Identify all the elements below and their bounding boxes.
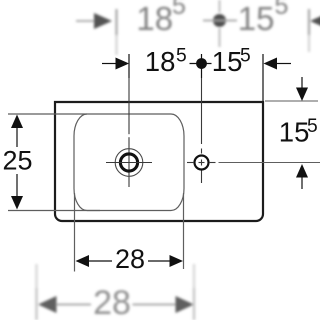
- ghost top right tick: [308, 9, 310, 35]
- svg-text:18: 18: [145, 46, 176, 77]
- extension lines below bowl (for 28): [74, 193, 76, 272]
- drain centre line vertical: [128, 78, 130, 134]
- top dimension line 18-5 left tail and arrowhead: [102, 63, 117, 65]
- dimension 25 vertical line: [16, 127, 18, 147]
- bowl (inner rounded rectangle): [74, 114, 184, 211]
- ghost top left extension stub: [115, 35, 117, 55]
- ghost bottom right arrowhead: [133, 304, 177, 306]
- svg-text:15: 15: [212, 46, 243, 77]
- ghost top dim line tail: [76, 20, 97, 22]
- tap crosshair horizontal + right extension (for 15-5): [187, 162, 194, 164]
- drain inner circle: [120, 154, 137, 171]
- right dim down arrow: [301, 77, 303, 89]
- svg-text:15: 15: [279, 117, 310, 148]
- ghost bottom left extension line: [35, 264, 37, 288]
- right extension line top (for 15-5): [265, 100, 318, 102]
- svg-text:5: 5: [240, 46, 251, 67]
- tap centre line vertical: [201, 78, 203, 144]
- right dim up arrow: [296, 164, 308, 178]
- svg-text:5: 5: [307, 116, 318, 137]
- ghost top left arrowhead: [94, 13, 112, 29]
- extension line left top (for 25): [8, 113, 87, 115]
- ghost dot junction: [213, 14, 226, 27]
- svg-text:28: 28: [115, 244, 145, 274]
- drain outer circle: [115, 149, 143, 177]
- tick / extension over drain: [128, 54, 130, 78]
- ghost bottom right extension line: [193, 264, 195, 288]
- top right arrowhead and tail: [264, 58, 278, 70]
- ghost top left tick: [115, 9, 117, 35]
- dot junction at tap extension: [196, 58, 207, 69]
- svg-text:5: 5: [275, 0, 289, 20]
- ghost top right arrowhead: [310, 13, 320, 29]
- main drawing (sharp layer): [2, 46, 320, 275]
- tap hole circle: [195, 156, 209, 170]
- top right tick / extension: [262, 54, 264, 101]
- extension line left bottom (for 25): [8, 210, 100, 212]
- svg-text:5: 5: [176, 46, 187, 67]
- drain crosshair horizontal: [106, 162, 152, 164]
- dimension 25 up arrowhead: [11, 115, 23, 129]
- ghost bottom left arrowhead: [38, 296, 57, 313]
- svg-text:28: 28: [93, 284, 131, 320]
- basin outline: [55, 102, 263, 221]
- svg-text:5: 5: [172, 0, 186, 20]
- dimension 28 line and arrowheads: [76, 255, 90, 267]
- dimension 25 down arrowhead: [11, 196, 23, 210]
- svg-text:25: 25: [2, 146, 32, 176]
- svg-text:15: 15: [238, 0, 275, 37]
- svg-text:18: 18: [136, 0, 173, 37]
